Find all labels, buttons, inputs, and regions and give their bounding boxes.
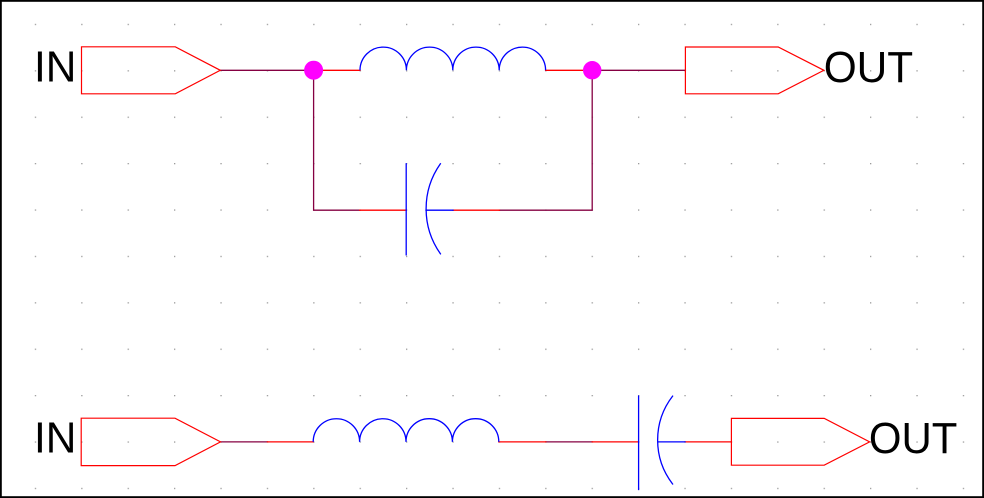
svg-text:OUT: OUT — [824, 43, 914, 92]
svg-text:IN: IN — [34, 42, 76, 91]
svg-text:OUT: OUT — [869, 414, 958, 463]
svg-text:IN: IN — [34, 414, 76, 463]
